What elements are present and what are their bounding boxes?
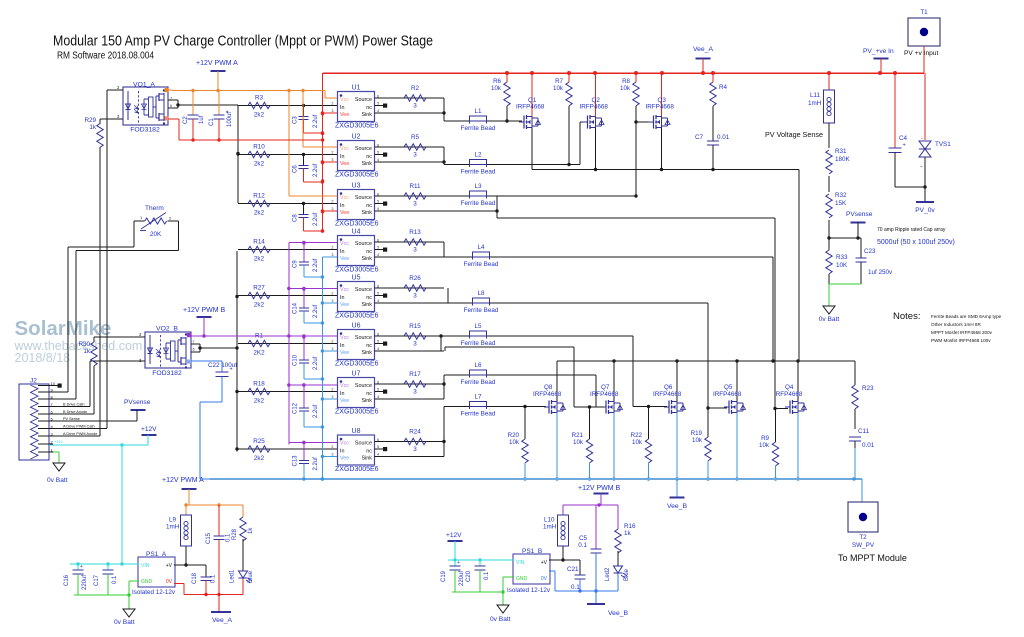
svg-text:nc: nc [366, 105, 372, 111]
svg-text:R11: R11 [409, 183, 421, 190]
svg-text:C12: C12 [293, 402, 299, 414]
svg-text:3: 3 [331, 253, 333, 257]
svg-text:In: In [340, 203, 345, 209]
svg-text:R17: R17 [409, 371, 421, 378]
svg-text:C7: C7 [695, 134, 704, 141]
svg-text:3: 3 [331, 109, 333, 113]
svg-text:220uf: 220uf [459, 571, 465, 586]
svg-text:3: 3 [413, 103, 417, 110]
svg-text:R14: R14 [253, 239, 265, 246]
svg-text:Sink: Sink [362, 302, 373, 308]
svg-text:3: 3 [413, 201, 417, 208]
svg-text:~: ~ [920, 164, 923, 169]
svg-text:6: 6 [170, 104, 172, 108]
svg-text:Notes:: Notes: [893, 311, 920, 322]
svg-text:R26: R26 [409, 275, 421, 282]
svg-text:Sink: Sink [362, 398, 373, 404]
svg-text:2: 2 [169, 216, 172, 221]
svg-text:3: 3 [413, 446, 417, 453]
svg-text:VO2_B: VO2_B [156, 326, 178, 333]
svg-text:Ferrite Bead: Ferrite Bead [461, 169, 496, 176]
svg-text:2.2uf: 2.2uf [313, 114, 319, 128]
svg-text:Ferrite Bead: Ferrite Bead [464, 261, 499, 268]
svg-text:5: 5 [377, 292, 379, 296]
svg-text:10k: 10k [553, 85, 564, 92]
svg-text:3: 3 [331, 395, 333, 399]
svg-text:VIN: VIN [141, 563, 150, 569]
svg-text:3: 3 [413, 293, 417, 300]
svg-text:Vee: Vee [340, 398, 349, 404]
svg-text:2k2: 2k2 [254, 161, 265, 168]
svg-text:0.1: 0.1 [578, 542, 587, 549]
svg-text:2.2uf: 2.2uf [313, 457, 319, 471]
svg-text:+: + [80, 564, 83, 570]
svg-text:In: In [340, 105, 345, 111]
svg-text:Isolated 12-12v: Isolated 12-12v [132, 589, 176, 596]
svg-text:2: 2 [331, 292, 333, 296]
svg-text:10K: 10K [836, 262, 848, 269]
svg-text:5000uf (50 x 100uf 250v): 5000uf (50 x 100uf 250v) [877, 239, 955, 246]
svg-text:IRFP4668: IRFP4668 [590, 391, 619, 398]
svg-text:Q8: Q8 [544, 384, 553, 391]
svg-text:3: 3 [331, 158, 333, 162]
svg-text:0.01: 0.01 [862, 442, 875, 449]
svg-text:0.1: 0.1 [484, 571, 490, 580]
svg-text:0.1: 0.1 [211, 574, 217, 583]
svg-text:IRFP4668: IRFP4668 [580, 104, 609, 111]
svg-text:R19: R19 [691, 430, 703, 437]
svg-text:In: In [340, 448, 345, 454]
svg-text:To MPPT Module: To MPPT Module [838, 553, 907, 563]
svg-text:10k: 10k [620, 85, 631, 92]
svg-text:nc: nc [366, 295, 372, 301]
svg-text:2.2uf: 2.2uf [313, 258, 319, 272]
svg-text:C13: C13 [293, 455, 299, 467]
svg-text:Vcc: Vcc [340, 335, 349, 341]
svg-text:C23: C23 [864, 248, 876, 255]
svg-text:5: 5 [377, 151, 379, 155]
svg-text:MPPT Mosfet IRFP4668 200v: MPPT Mosfet IRFP4668 200v [931, 330, 993, 335]
svg-text:2.2uf: 2.2uf [313, 163, 319, 177]
svg-text:2k2: 2k2 [254, 210, 265, 217]
svg-text:0.01: 0.01 [717, 134, 730, 141]
svg-text:2k2: 2k2 [254, 302, 265, 309]
svg-text:10k: 10k [573, 439, 584, 446]
svg-text:PV Sense: PV Sense [63, 417, 80, 421]
svg-text:Therm: Therm [145, 205, 164, 212]
svg-text:Q7: Q7 [601, 384, 610, 391]
svg-text:R21: R21 [572, 432, 584, 439]
svg-text:C8: C8 [293, 214, 299, 222]
svg-text:7: 7 [193, 340, 195, 344]
svg-text:Isolated 12-12v: Isolated 12-12v [507, 587, 551, 594]
svg-text:2: 2 [331, 340, 333, 344]
svg-text:+12V PWM A: +12V PWM A [162, 477, 204, 484]
svg-text:C10: C10 [293, 354, 299, 366]
svg-text:FOD3182: FOD3182 [130, 127, 160, 134]
svg-text:+V: +V [166, 563, 173, 569]
svg-text:C1: C1 [209, 118, 215, 126]
svg-text:T1: T1 [920, 9, 928, 16]
svg-text:C6: C6 [293, 165, 299, 173]
svg-text:R12: R12 [253, 193, 265, 200]
svg-text:nc: nc [366, 154, 372, 160]
svg-text:Source: Source [355, 335, 372, 341]
svg-text:Vee: Vee [340, 456, 349, 462]
svg-text:A Drive PWM Cath: A Drive PWM Cath [63, 425, 95, 429]
svg-text:GND: GND [516, 576, 528, 582]
svg-text:PWM Mosfet IRFP4668 100v: PWM Mosfet IRFP4668 100v [931, 338, 991, 343]
svg-text:2k2: 2k2 [254, 256, 265, 263]
svg-text:0v Batt: 0v Batt [47, 477, 68, 484]
svg-text:U5: U5 [352, 275, 361, 282]
svg-text:ZXGD3005E6: ZXGD3005E6 [335, 221, 379, 228]
svg-text:2k2: 2k2 [254, 455, 265, 462]
svg-text:R24: R24 [409, 429, 421, 436]
svg-text:Sink: Sink [362, 210, 373, 216]
svg-text:2: 2 [331, 246, 333, 250]
svg-text:100uf: 100uf [227, 112, 233, 127]
svg-text:R3: R3 [255, 95, 264, 102]
svg-text:U6: U6 [352, 323, 361, 330]
svg-text:Blue: Blue [624, 568, 630, 581]
svg-text:C17: C17 [94, 574, 100, 586]
svg-text:Ferrite Bead: Ferrite Bead [464, 307, 499, 314]
svg-text:IRFP4668: IRFP4668 [646, 104, 675, 111]
svg-text:2018/8/18: 2018/8/18 [15, 351, 71, 365]
svg-text:R5: R5 [411, 134, 420, 141]
svg-text:IRFP4668: IRFP4668 [533, 391, 562, 398]
svg-text:R2: R2 [411, 85, 420, 92]
svg-text:+: + [230, 367, 233, 373]
svg-text:nc: nc [366, 343, 372, 349]
svg-text:R33: R33 [836, 254, 848, 261]
svg-text:FOD3182: FOD3182 [152, 370, 182, 377]
svg-text:2: 2 [331, 102, 333, 106]
svg-text:Vee: Vee [340, 350, 349, 356]
svg-text:R23: R23 [862, 385, 874, 392]
svg-text:+12V: +12V [141, 426, 157, 433]
svg-text:+12V PWM B: +12V PWM B [578, 485, 621, 492]
svg-text:IRFP4668: IRFP4668 [516, 104, 545, 111]
svg-text:Vcc: Vcc [340, 383, 349, 389]
svg-text:Vcc: Vcc [340, 241, 349, 247]
svg-text:nc: nc [366, 391, 372, 397]
svg-text:Vee: Vee [340, 302, 349, 308]
svg-text:nc: nc [366, 249, 372, 255]
svg-text:C21: C21 [567, 566, 579, 573]
svg-text:Sink: Sink [362, 256, 373, 262]
svg-text:2.2uf: 2.2uf [313, 304, 319, 318]
svg-text:2: 2 [117, 85, 120, 90]
svg-text:0.1: 0.1 [112, 575, 118, 584]
svg-text:4: 4 [377, 253, 379, 257]
svg-text:10k: 10k [632, 439, 643, 446]
svg-text:0v Batt: 0v Batt [490, 616, 511, 623]
svg-text:+V: +V [541, 560, 548, 566]
svg-text:R13: R13 [409, 229, 421, 236]
svg-text:6: 6 [193, 348, 195, 352]
svg-text:0.1: 0.1 [226, 533, 232, 542]
svg-text:IRFP4668: IRFP4668 [653, 391, 682, 398]
svg-text:10k: 10k [509, 439, 520, 446]
svg-text:R25: R25 [253, 438, 265, 445]
svg-text:2: 2 [331, 151, 333, 155]
svg-text:R16: R16 [624, 523, 636, 530]
svg-text:Source: Source [355, 97, 372, 103]
svg-text:220uf: 220uf [82, 575, 88, 590]
svg-text:U1: U1 [352, 85, 361, 92]
svg-text:R29: R29 [84, 117, 96, 124]
svg-text:R10: R10 [253, 144, 265, 151]
svg-text:4: 4 [377, 207, 379, 211]
svg-text:U2: U2 [352, 134, 361, 141]
svg-text:A Drive PWM Anode: A Drive PWM Anode [63, 432, 97, 436]
svg-text:Ferrite Bead: Ferrite Bead [461, 379, 496, 386]
svg-text:Vee_B: Vee_B [667, 503, 687, 510]
svg-text:C14: C14 [293, 302, 299, 314]
svg-text:SW_PV: SW_PV [852, 542, 875, 549]
svg-text:0V: 0V [541, 576, 548, 582]
svg-text:R27: R27 [253, 285, 265, 292]
svg-text:PV Voltage Sense: PV Voltage Sense [765, 130, 823, 139]
svg-text:C5: C5 [579, 535, 588, 542]
svg-text:3: 3 [413, 341, 417, 348]
svg-text:0v Batt: 0v Batt [114, 619, 135, 626]
svg-text:Vee: Vee [340, 161, 349, 167]
svg-text:Q4: Q4 [785, 384, 794, 391]
svg-text:1k: 1k [83, 348, 91, 355]
svg-text:L4: L4 [477, 244, 485, 251]
svg-text:R7: R7 [555, 78, 563, 85]
svg-text:1k: 1k [89, 124, 97, 131]
svg-text:Sink: Sink [362, 161, 373, 167]
svg-text:70 amp Ripple rated Cap array: 70 amp Ripple rated Cap array [877, 227, 946, 233]
svg-text:2.2uf: 2.2uf [313, 356, 319, 370]
svg-text:L1: L1 [474, 108, 482, 115]
svg-text:nc: nc [366, 448, 372, 454]
svg-text:5: 5 [377, 246, 379, 250]
svg-text:In: In [340, 391, 345, 397]
svg-text:+: + [457, 560, 460, 566]
svg-text:R31: R31 [835, 148, 847, 155]
svg-text:-: - [921, 136, 923, 142]
svg-text:In: In [340, 295, 345, 301]
svg-text:+12V PWM B: +12V PWM B [183, 307, 226, 314]
svg-text:Q6: Q6 [664, 384, 673, 391]
svg-text:PVsense: PVsense [846, 211, 873, 218]
svg-text:Vee: Vee [340, 256, 349, 262]
svg-text:180K: 180K [835, 156, 851, 163]
svg-text:Ferrite Beads are SMD 6Amp typ: Ferrite Beads are SMD 6Amp type [931, 314, 1002, 319]
svg-text:ZXGD3005E6: ZXGD3005E6 [335, 313, 379, 320]
svg-text:Vcc: Vcc [340, 441, 349, 447]
svg-text:ZXGD3005E6: ZXGD3005E6 [335, 409, 379, 416]
svg-text:L3: L3 [474, 183, 482, 190]
svg-text:5: 5 [377, 388, 379, 392]
svg-text:3: 3 [331, 299, 333, 303]
svg-text:VO1_A: VO1_A [133, 82, 155, 89]
svg-text:ZXGD3005E6: ZXGD3005E6 [335, 123, 379, 130]
svg-text:B Drive Anode: B Drive Anode [63, 410, 87, 414]
svg-text:R28: R28 [232, 528, 238, 540]
svg-text:10k: 10k [491, 85, 502, 92]
svg-text:R22: R22 [631, 432, 643, 439]
svg-text:PS1_A: PS1_A [146, 551, 167, 558]
svg-text:Source: Source [355, 241, 372, 247]
svg-text:Vee_A: Vee_A [693, 46, 713, 53]
svg-text:PV_+ve In: PV_+ve In [863, 48, 894, 55]
svg-text:+12V: +12V [446, 532, 462, 539]
svg-text:ZXGD3005E6: ZXGD3005E6 [335, 361, 379, 368]
svg-text:C4: C4 [899, 135, 908, 142]
svg-text:3: 3 [331, 207, 333, 211]
svg-text:5: 5 [377, 340, 379, 344]
svg-text:Source: Source [355, 195, 372, 201]
svg-text:U7: U7 [352, 371, 361, 378]
svg-text:L8: L8 [477, 290, 485, 297]
svg-text:5: 5 [377, 445, 379, 449]
svg-text:1k: 1k [624, 530, 632, 537]
svg-text:Q5: Q5 [724, 384, 733, 391]
svg-text:20K: 20K [150, 231, 162, 238]
svg-text:Led1: Led1 [230, 569, 236, 583]
svg-text:+12V PWM A: +12V PWM A [196, 60, 238, 67]
svg-text:nc: nc [366, 203, 372, 209]
svg-text:2.2uf: 2.2uf [313, 404, 319, 418]
svg-text:2: 2 [331, 200, 333, 204]
svg-text:In: In [340, 343, 345, 349]
svg-text:R4: R4 [719, 84, 728, 91]
svg-text:10k: 10k [759, 442, 770, 449]
svg-text:Vee_B: Vee_B [608, 610, 628, 617]
svg-text:Vee_A: Vee_A [212, 617, 232, 624]
svg-text:+12v: +12v [54, 440, 62, 444]
svg-text:VIN: VIN [516, 560, 525, 566]
svg-text:C9: C9 [293, 260, 299, 268]
svg-text:Sink: Sink [362, 350, 373, 356]
svg-text:Vcc: Vcc [340, 97, 349, 103]
svg-text:Ferrite Bead: Ferrite Bead [461, 411, 496, 418]
svg-text:4: 4 [377, 109, 379, 113]
svg-text:Sink: Sink [362, 456, 373, 462]
svg-text:U4: U4 [352, 229, 361, 236]
svg-text:3: 3 [413, 247, 417, 254]
svg-text:3: 3 [331, 453, 333, 457]
svg-text:3: 3 [331, 347, 333, 351]
svg-text:3: 3 [117, 114, 120, 119]
svg-text:RM Software 2018.08.004: RM Software 2018.08.004 [57, 51, 154, 62]
svg-text:L9: L9 [169, 517, 177, 524]
svg-text:Ferrite Bead: Ferrite Bead [461, 340, 496, 347]
svg-text:15K: 15K [835, 200, 847, 207]
svg-text:ZXGD3005E6: ZXGD3005E6 [335, 267, 379, 274]
svg-text:IRFP4668: IRFP4668 [774, 391, 803, 398]
svg-text:L5: L5 [474, 323, 482, 330]
svg-text:L11: L11 [810, 92, 821, 99]
svg-text:Sink: Sink [362, 112, 373, 118]
svg-text:0v Batt: 0v Batt [819, 316, 840, 323]
svg-text:4: 4 [377, 299, 379, 303]
svg-text:R20: R20 [508, 432, 520, 439]
svg-text:T2: T2 [859, 534, 867, 541]
svg-text:+: + [903, 143, 906, 149]
svg-text:2: 2 [331, 388, 333, 392]
svg-text:C16: C16 [64, 574, 70, 586]
svg-text:C15: C15 [206, 532, 212, 544]
svg-text:1: 1 [140, 215, 143, 220]
svg-text:B Drive Cath: B Drive Cath [63, 403, 85, 407]
svg-text:2: 2 [331, 445, 333, 449]
svg-text:R15: R15 [409, 323, 421, 330]
svg-text:Source: Source [355, 383, 372, 389]
svg-text:C18: C18 [192, 572, 198, 584]
svg-text:In: In [340, 154, 345, 160]
svg-text:4: 4 [377, 347, 379, 351]
svg-text:5: 5 [377, 102, 379, 106]
svg-text:Modular 150 Amp PV Charge Cont: Modular 150 Amp PV Charge Controller (Mp… [53, 33, 433, 50]
svg-text:PVsense: PVsense [124, 399, 151, 406]
svg-text:PV_0v: PV_0v [915, 207, 935, 214]
svg-text:ZXGD3005E6: ZXGD3005E6 [335, 172, 379, 179]
svg-text:L2: L2 [474, 152, 482, 159]
svg-text:PS1_B: PS1_B [522, 548, 542, 555]
svg-text:C20: C20 [466, 570, 472, 582]
svg-text:R18: R18 [253, 381, 265, 388]
svg-text:Blue: Blue [248, 570, 254, 583]
svg-text:Vcc: Vcc [340, 195, 349, 201]
svg-text:Source: Source [355, 441, 372, 447]
svg-text:1mH: 1mH [808, 100, 822, 107]
svg-text:TVS1: TVS1 [935, 141, 951, 148]
svg-text:Vcc: Vcc [340, 146, 349, 152]
svg-text:Other Inductors 1mH 8R: Other Inductors 1mH 8R [931, 322, 981, 327]
svg-text:3: 3 [413, 152, 417, 159]
svg-text:U3: U3 [352, 183, 361, 190]
svg-text:Source: Source [355, 287, 372, 293]
svg-text:U8: U8 [352, 428, 361, 435]
svg-text:0V: 0V [166, 579, 173, 585]
svg-text:4: 4 [377, 158, 379, 162]
svg-text:Vcc: Vcc [340, 287, 349, 293]
svg-text:2k2: 2k2 [254, 112, 265, 119]
svg-text:C2: C2 [183, 116, 189, 124]
svg-text:2.2uf: 2.2uf [313, 212, 319, 226]
svg-text:L10: L10 [544, 517, 555, 524]
svg-text:C11: C11 [858, 428, 870, 435]
svg-text:5: 5 [377, 200, 379, 204]
svg-text:C22 100uf: C22 100uf [208, 362, 237, 369]
svg-text:2K2: 2K2 [253, 350, 265, 357]
svg-text:4: 4 [377, 395, 379, 399]
svg-text:1mH: 1mH [166, 524, 180, 531]
svg-text:4: 4 [377, 453, 379, 457]
svg-text:ZXGD3005E6: ZXGD3005E6 [335, 466, 379, 473]
svg-text:10k: 10k [692, 437, 703, 444]
svg-text:Ferrite Bead: Ferrite Bead [461, 200, 496, 207]
svg-text:L6: L6 [474, 362, 482, 369]
svg-text:2k2: 2k2 [254, 398, 265, 405]
svg-text:Vee: Vee [340, 210, 349, 216]
svg-text:Vee: Vee [340, 112, 349, 118]
svg-text:2: 2 [139, 332, 142, 337]
svg-text:1k: 1k [248, 527, 254, 534]
svg-text:C19: C19 [441, 570, 447, 582]
svg-text:R9: R9 [761, 435, 769, 442]
svg-text:C3: C3 [293, 116, 299, 124]
svg-text:Ferrite Bead: Ferrite Bead [461, 125, 496, 132]
svg-text:R6: R6 [493, 78, 501, 85]
